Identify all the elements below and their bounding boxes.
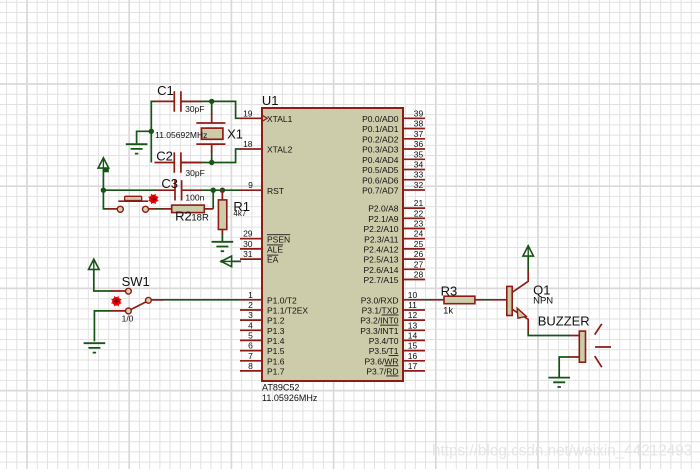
svg-text:17: 17 bbox=[408, 361, 418, 371]
svg-text:6: 6 bbox=[248, 341, 253, 351]
svg-text:P0.7/AD7: P0.7/AD7 bbox=[362, 186, 399, 196]
svg-text:P3.4/T0: P3.4/T0 bbox=[369, 336, 399, 346]
svg-text:P2.1/A9: P2.1/A9 bbox=[368, 214, 399, 224]
svg-text:34: 34 bbox=[414, 160, 424, 170]
svg-text:25: 25 bbox=[414, 239, 424, 249]
svg-text:1: 1 bbox=[248, 290, 253, 300]
svg-text:P3.3/INT1: P3.3/INT1 bbox=[360, 326, 399, 336]
svg-text:33: 33 bbox=[414, 170, 424, 180]
svg-text:29: 29 bbox=[243, 229, 253, 239]
svg-text:EA: EA bbox=[267, 255, 279, 265]
svg-text:8: 8 bbox=[248, 361, 253, 371]
svg-text:13: 13 bbox=[408, 320, 418, 330]
svg-text:P0.4/AD4: P0.4/AD4 bbox=[362, 155, 399, 165]
svg-text:C2: C2 bbox=[156, 149, 173, 164]
svg-text:22: 22 bbox=[414, 208, 424, 218]
svg-text:24: 24 bbox=[414, 229, 424, 239]
svg-text:100n: 100n bbox=[185, 193, 204, 203]
svg-text:31: 31 bbox=[243, 249, 253, 259]
svg-text:11.05692MHz: 11.05692MHz bbox=[155, 130, 207, 140]
svg-text:3: 3 bbox=[248, 310, 253, 320]
svg-text:5: 5 bbox=[248, 330, 253, 340]
svg-text:39: 39 bbox=[414, 108, 424, 118]
svg-text:32: 32 bbox=[414, 180, 424, 190]
svg-text:P0.2/AD2: P0.2/AD2 bbox=[362, 134, 399, 144]
svg-text:P2.6/A14: P2.6/A14 bbox=[364, 265, 399, 275]
svg-text:7: 7 bbox=[248, 351, 253, 361]
svg-text:U1: U1 bbox=[262, 93, 279, 108]
svg-text:P2.0/A8: P2.0/A8 bbox=[368, 204, 399, 214]
svg-text:P2.2/A10: P2.2/A10 bbox=[364, 224, 399, 234]
svg-text:30: 30 bbox=[243, 239, 253, 249]
svg-text:C3: C3 bbox=[161, 176, 178, 191]
svg-text:https://blog.csdn.net/weixin_4: https://blog.csdn.net/weixin_44212493 bbox=[432, 443, 692, 460]
svg-text:1k: 1k bbox=[443, 306, 453, 317]
svg-text:19: 19 bbox=[243, 108, 253, 118]
svg-text:AT89C52: AT89C52 bbox=[262, 383, 299, 393]
svg-text:R3: R3 bbox=[441, 284, 458, 299]
svg-text:P1.1/T2EX: P1.1/T2EX bbox=[267, 306, 308, 316]
svg-text:38: 38 bbox=[414, 119, 424, 129]
svg-text:30pF: 30pF bbox=[185, 104, 204, 114]
svg-text:BUZZER: BUZZER bbox=[538, 313, 590, 328]
svg-text:1/0: 1/0 bbox=[122, 313, 134, 323]
svg-text:P3.7/RD: P3.7/RD bbox=[366, 367, 398, 377]
svg-text:4: 4 bbox=[248, 320, 253, 330]
svg-text:P3.1/TXD: P3.1/TXD bbox=[362, 306, 399, 316]
svg-text:P0.5/AD5: P0.5/AD5 bbox=[362, 165, 399, 175]
svg-text:P3.2/INT0: P3.2/INT0 bbox=[360, 316, 399, 326]
svg-text:26: 26 bbox=[414, 249, 424, 259]
svg-text:18: 18 bbox=[243, 139, 253, 149]
svg-text:21: 21 bbox=[414, 198, 424, 208]
svg-text:4k7: 4k7 bbox=[233, 209, 246, 218]
svg-text:P0.1/AD1: P0.1/AD1 bbox=[362, 124, 399, 134]
svg-text:16: 16 bbox=[408, 351, 418, 361]
svg-text:37: 37 bbox=[414, 129, 424, 139]
svg-text:30pF: 30pF bbox=[185, 168, 204, 178]
svg-text:P3.0/RXD: P3.0/RXD bbox=[361, 295, 399, 305]
svg-text:11.05926MHz: 11.05926MHz bbox=[262, 393, 318, 403]
svg-text:XTAL1: XTAL1 bbox=[267, 114, 293, 124]
svg-text:P0.0/AD0: P0.0/AD0 bbox=[362, 114, 399, 124]
svg-text:35: 35 bbox=[414, 149, 424, 159]
svg-text:12: 12 bbox=[408, 310, 418, 320]
svg-text:P1.5: P1.5 bbox=[267, 346, 285, 356]
svg-text:SW1: SW1 bbox=[122, 274, 150, 289]
svg-text:XTAL2: XTAL2 bbox=[267, 145, 293, 155]
svg-text:PSEN: PSEN bbox=[267, 234, 290, 244]
svg-text:P2.5/A13: P2.5/A13 bbox=[364, 255, 399, 265]
svg-text:RST: RST bbox=[267, 186, 284, 196]
svg-text:P1.3: P1.3 bbox=[267, 326, 285, 336]
svg-text:14: 14 bbox=[408, 330, 418, 340]
svg-text:X1: X1 bbox=[227, 126, 243, 141]
svg-text:P0.6/AD6: P0.6/AD6 bbox=[362, 175, 399, 185]
svg-text:P1.6: P1.6 bbox=[267, 356, 285, 366]
svg-text:P1.2: P1.2 bbox=[267, 316, 285, 326]
svg-text:P2.7/A15: P2.7/A15 bbox=[364, 275, 399, 285]
svg-text:R2: R2 bbox=[175, 208, 192, 223]
svg-text:C1: C1 bbox=[157, 83, 174, 98]
svg-text:9: 9 bbox=[248, 180, 253, 190]
svg-text:36: 36 bbox=[414, 139, 424, 149]
svg-text:2: 2 bbox=[248, 300, 253, 310]
svg-text:P2.4/A12: P2.4/A12 bbox=[364, 245, 399, 255]
svg-text:P1.4: P1.4 bbox=[267, 336, 285, 346]
svg-text:28: 28 bbox=[414, 270, 424, 280]
svg-text:23: 23 bbox=[414, 219, 424, 229]
svg-text:P2.3/A11: P2.3/A11 bbox=[364, 234, 399, 244]
svg-text:18R: 18R bbox=[191, 212, 209, 223]
svg-text:P1.0/T2: P1.0/T2 bbox=[267, 295, 297, 305]
svg-text:10: 10 bbox=[408, 290, 418, 300]
svg-text:27: 27 bbox=[414, 259, 424, 269]
svg-text:P1.7: P1.7 bbox=[267, 367, 285, 377]
svg-text:ALE: ALE bbox=[267, 245, 283, 255]
svg-text:P3.6/WR: P3.6/WR bbox=[364, 356, 398, 366]
svg-text:P3.5/T1: P3.5/T1 bbox=[369, 346, 399, 356]
svg-text:15: 15 bbox=[408, 341, 418, 351]
svg-text:P0.3/AD3: P0.3/AD3 bbox=[362, 145, 399, 155]
svg-text:11: 11 bbox=[408, 300, 417, 310]
svg-text:NPN: NPN bbox=[533, 295, 553, 306]
